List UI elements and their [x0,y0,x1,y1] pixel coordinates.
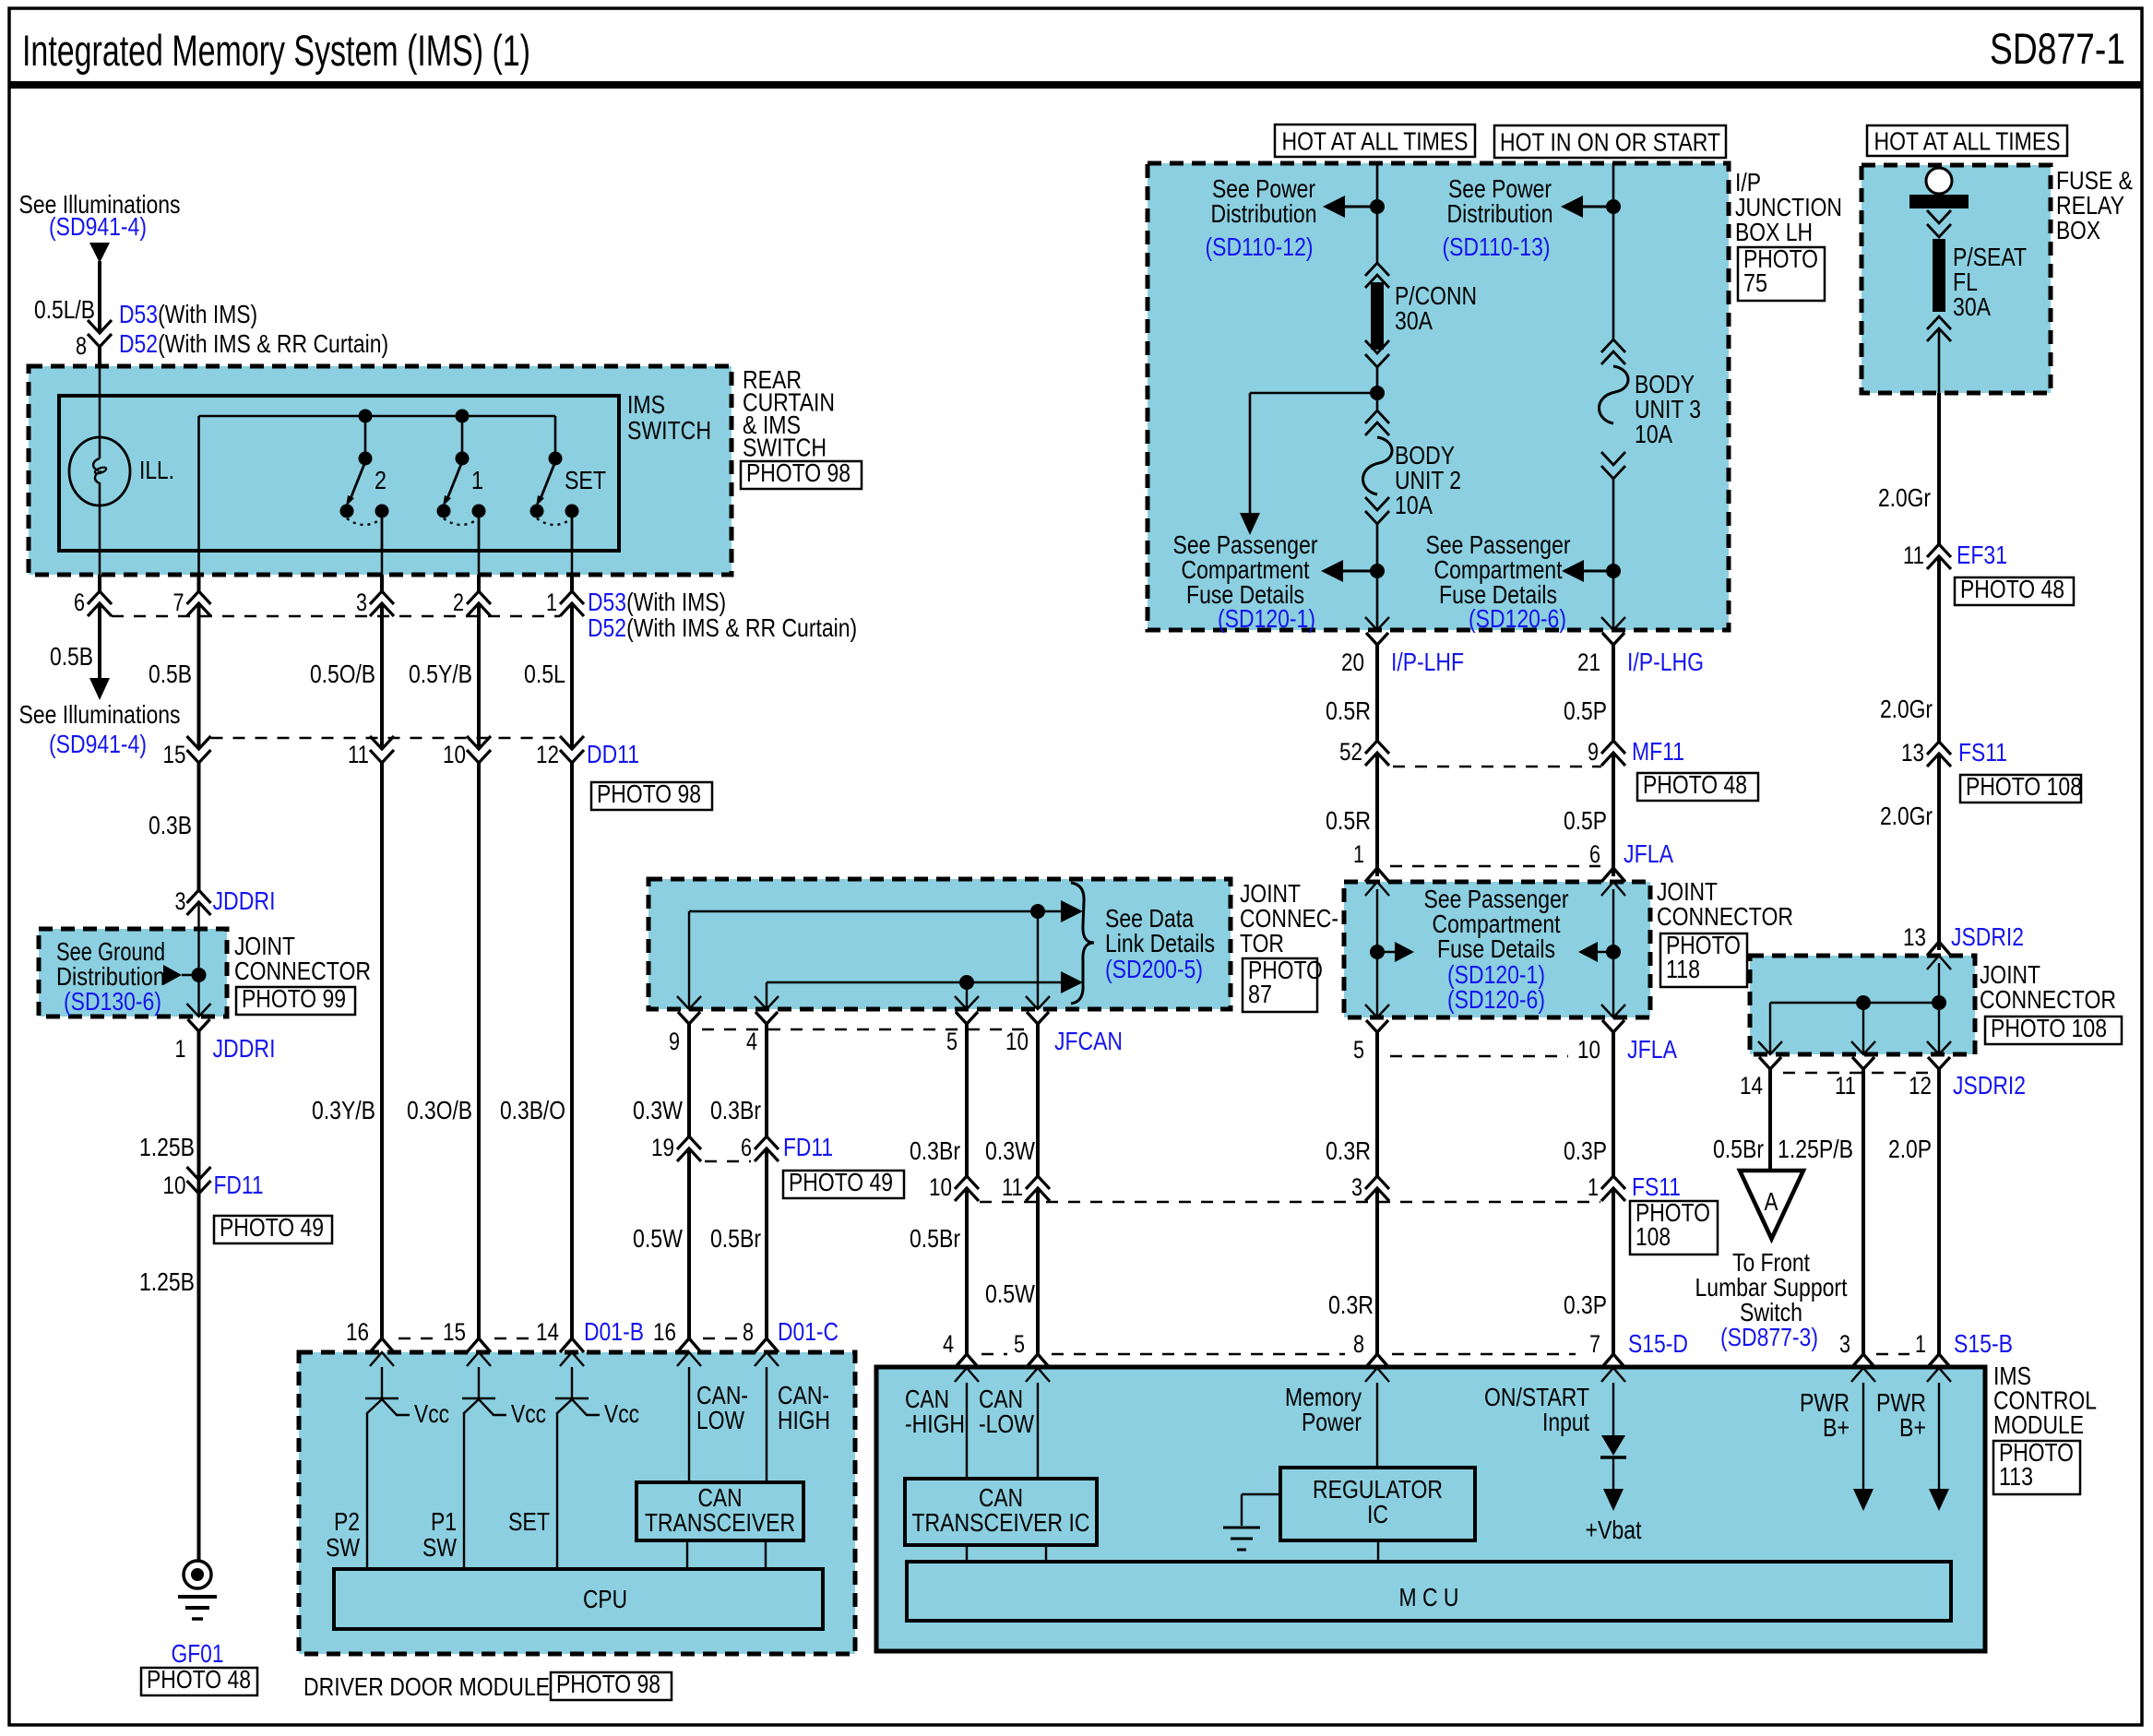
svg-text:7: 7 [1589,1330,1600,1358]
svg-text:30A: 30A [1395,306,1433,335]
svg-text:D01-C: D01-C [778,1317,839,1346]
svg-text:M C U: M C U [1399,1583,1459,1611]
svg-text:Distribution: Distribution [1447,199,1553,228]
svg-text:5: 5 [946,1028,958,1055]
svg-text:SD877-1: SD877-1 [1990,24,2125,73]
svg-text:14: 14 [536,1318,559,1346]
svg-text:8: 8 [76,332,87,360]
svg-text:P1: P1 [431,1507,457,1536]
svg-text:TOR: TOR [1240,929,1284,957]
svg-text:87: 87 [1248,980,1272,1008]
svg-text:D52: D52 [119,329,158,358]
svg-text:(With IMS): (With IMS) [626,588,726,616]
svg-text:Vcc: Vcc [414,1399,449,1428]
svg-text:S15-D: S15-D [1628,1329,1688,1358]
svg-text:10: 10 [1005,1028,1029,1055]
svg-text:HOT AT ALL TIMES: HOT AT ALL TIMES [1874,127,2061,156]
svg-text:0.3Br: 0.3Br [710,1096,761,1124]
svg-text:7: 7 [173,589,184,616]
svg-text:IMS: IMS [627,390,665,419]
svg-text:2: 2 [453,589,464,616]
svg-text:9: 9 [669,1028,680,1055]
svg-text:0.3B: 0.3B [149,811,192,839]
svg-text:-LOW: -LOW [979,1409,1034,1438]
svg-text:JSDRI2: JSDRI2 [1953,1071,2026,1100]
svg-text:DD11: DD11 [587,740,639,768]
svg-text:2.0Gr: 2.0Gr [1880,695,1933,723]
svg-text:0.5R: 0.5R [1326,696,1371,725]
svg-text:PHOTO 48: PHOTO 48 [1960,575,2064,603]
svg-text:0.3R: 0.3R [1328,1290,1374,1319]
svg-text:(With IMS & RR Curtain): (With IMS & RR Curtain) [626,613,857,642]
svg-text:I/P-LHG: I/P-LHG [1627,648,1704,676]
svg-text:15: 15 [163,741,186,768]
svg-text:1.25B: 1.25B [139,1267,195,1296]
svg-text:9: 9 [1588,738,1599,766]
svg-text:0.5B: 0.5B [149,660,192,688]
svg-text:118: 118 [1666,955,1700,983]
svg-text:5: 5 [1353,1036,1364,1064]
svg-text:DRIVER DOOR MODULE: DRIVER DOOR MODULE [303,1672,550,1701]
svg-text:JDDRI: JDDRI [213,1034,276,1063]
svg-text:0.3W: 0.3W [985,1136,1035,1165]
svg-text:PHOTO 108: PHOTO 108 [1966,772,2082,801]
svg-text:SWITCH: SWITCH [743,434,827,462]
svg-text:1: 1 [1353,840,1364,868]
svg-text:(SD110-13): (SD110-13) [1443,232,1551,261]
svg-text:S15-B: S15-B [1954,1329,2013,1358]
svg-text:Input: Input [1542,1408,1589,1436]
svg-text:PHOTO 48: PHOTO 48 [147,1665,251,1694]
svg-text:12: 12 [1909,1072,1932,1100]
svg-text:0.3P: 0.3P [1564,1136,1607,1165]
svg-text:4: 4 [746,1028,757,1055]
svg-text:JFLA: JFLA [1627,1035,1677,1064]
svg-text:2.0Gr: 2.0Gr [1878,483,1931,512]
svg-text:6: 6 [1589,840,1600,868]
svg-text:FD11: FD11 [783,1133,833,1161]
svg-text:0.5O/B: 0.5O/B [310,660,375,688]
svg-text:16: 16 [346,1318,369,1346]
svg-text:SW: SW [326,1533,360,1562]
svg-text:FD11: FD11 [214,1171,264,1199]
svg-text:HIGH: HIGH [778,1406,830,1434]
svg-text:See Illuminations: See Illuminations [19,700,181,729]
svg-text:1: 1 [546,589,557,616]
svg-text:D52: D52 [588,613,626,642]
svg-text:(SD877-3): (SD877-3) [1720,1323,1818,1351]
svg-text:3: 3 [175,887,186,915]
svg-text:2.0P: 2.0P [1888,1135,1932,1163]
svg-text:1: 1 [471,466,483,494]
svg-text:Power: Power [1302,1408,1362,1436]
svg-text:2: 2 [375,466,387,494]
svg-text:CONNECTOR: CONNECTOR [1980,985,2116,1014]
svg-text:Distribution: Distribution [1211,199,1317,228]
svg-text:ILL.: ILL. [139,456,174,484]
svg-text:PHOTO 108: PHOTO 108 [1991,1014,2107,1042]
svg-text:PHOTO 98: PHOTO 98 [597,779,701,808]
svg-text:A: A [1765,1187,1778,1216]
svg-text:4: 4 [943,1330,954,1358]
svg-text:30A: 30A [1953,292,1991,321]
svg-text:108: 108 [1636,1222,1671,1251]
svg-text:(SD941-4): (SD941-4) [49,730,147,758]
svg-text:JFCAN: JFCAN [1054,1027,1123,1055]
svg-text:8: 8 [743,1318,754,1346]
svg-text:Link Details: Link Details [1105,929,1215,957]
svg-text:11: 11 [348,741,369,768]
svg-text:Vcc: Vcc [604,1399,639,1428]
svg-text:10: 10 [443,741,466,768]
svg-text:I/P-LHF: I/P-LHF [1391,648,1464,676]
svg-text:SWITCH: SWITCH [627,416,711,445]
svg-text:13: 13 [1901,739,1924,767]
svg-text:11: 11 [1835,1072,1856,1100]
svg-text:CPU: CPU [583,1585,627,1613]
svg-text:PHOTO 49: PHOTO 49 [789,1168,893,1196]
svg-text:0.3B/O: 0.3B/O [500,1096,565,1124]
svg-text:LOW: LOW [696,1406,744,1434]
svg-text:0.5B: 0.5B [50,642,93,671]
svg-text:GF01: GF01 [172,1639,224,1668]
svg-text:113: 113 [1999,1462,2033,1491]
svg-text:1: 1 [175,1035,186,1063]
svg-text:BOX LH: BOX LH [1735,218,1813,246]
svg-text:0.5L: 0.5L [524,660,565,688]
svg-text:FS11: FS11 [1958,738,2007,767]
svg-text:6: 6 [741,1134,752,1161]
svg-text:Vcc: Vcc [511,1399,546,1428]
svg-text:PHOTO 98: PHOTO 98 [556,1670,660,1698]
svg-text:2.0Gr: 2.0Gr [1880,802,1933,830]
svg-text:IC: IC [1367,1500,1388,1528]
svg-text:52: 52 [1339,738,1362,766]
svg-text:10: 10 [163,1171,186,1199]
svg-text:FS11: FS11 [1632,1172,1681,1201]
svg-text:JFLA: JFLA [1624,839,1673,868]
svg-text:14: 14 [1740,1072,1763,1100]
svg-text:SW: SW [422,1533,457,1562]
svg-text:0.3R: 0.3R [1326,1136,1371,1165]
svg-text:6: 6 [74,589,85,616]
svg-text:0.5P: 0.5P [1564,696,1607,725]
svg-text:Integrated Memory System (IMS): Integrated Memory System (IMS) (1) [22,26,530,75]
svg-text:75: 75 [1743,268,1767,297]
svg-text:JDDRI: JDDRI [213,886,276,915]
svg-text:5: 5 [1014,1330,1025,1358]
svg-text:MF11: MF11 [1632,737,1684,766]
svg-text:(With IMS): (With IMS) [158,300,257,328]
svg-text:10: 10 [1577,1036,1600,1064]
svg-text:EF31: EF31 [1957,541,2007,569]
svg-text:0.5P: 0.5P [1564,806,1607,835]
svg-text:(SD120-6): (SD120-6) [1447,985,1545,1014]
svg-text:0.5Br: 0.5Br [1713,1135,1764,1163]
svg-text:0.3Br: 0.3Br [910,1136,960,1165]
svg-text:Fuse Details: Fuse Details [1437,934,1555,963]
svg-text:11: 11 [1002,1173,1023,1201]
svg-text:BOX: BOX [2056,216,2100,244]
svg-text:0.5Br: 0.5Br [910,1224,960,1253]
svg-text:B+: B+ [1899,1413,1926,1442]
svg-text:CONNECTOR: CONNECTOR [234,957,371,985]
svg-text:PHOTO 48: PHOTO 48 [1643,770,1747,799]
svg-text:0.5Br: 0.5Br [710,1224,761,1253]
svg-text:D01-B: D01-B [584,1317,644,1346]
svg-text:SET: SET [565,466,606,494]
svg-text:3: 3 [1839,1330,1850,1358]
svg-text:P2: P2 [334,1507,360,1536]
svg-text:PHOTO 98: PHOTO 98 [746,458,850,487]
svg-text:0.5R: 0.5R [1326,806,1371,835]
svg-text:1.25P/B: 1.25P/B [1778,1135,1853,1163]
svg-text:0.3Y/B: 0.3Y/B [312,1096,375,1124]
svg-text:B+: B+ [1823,1413,1850,1442]
svg-text:0.3O/B: 0.3O/B [407,1096,472,1124]
svg-text:0.5W: 0.5W [633,1224,683,1253]
svg-text:(SD110-12): (SD110-12) [1206,232,1314,261]
svg-text:CONNECTOR: CONNECTOR [1657,902,1793,931]
svg-text:0.5Y/B: 0.5Y/B [409,660,472,688]
svg-text:1.25B: 1.25B [139,1133,195,1161]
svg-text:20: 20 [1341,648,1364,676]
svg-text:(SD120-1): (SD120-1) [1218,604,1315,633]
svg-text:3: 3 [1351,1173,1362,1201]
svg-text:(SD120-6): (SD120-6) [1469,604,1566,633]
svg-text:16: 16 [653,1318,676,1346]
svg-text:+Vbat: +Vbat [1586,1516,1642,1544]
svg-text:11: 11 [1903,541,1924,569]
svg-text:D53: D53 [119,300,158,328]
svg-text:JSDRI2: JSDRI2 [1951,922,2024,951]
svg-text:10A: 10A [1635,420,1672,448]
svg-text:1: 1 [1915,1330,1926,1358]
svg-text:1: 1 [1588,1173,1599,1201]
svg-text:15: 15 [443,1318,466,1346]
svg-text:HOT AT ALL TIMES: HOT AT ALL TIMES [1282,127,1469,156]
svg-text:PHOTO 99: PHOTO 99 [242,984,346,1013]
svg-text:0.5W: 0.5W [985,1279,1035,1308]
svg-text:SET: SET [508,1507,550,1536]
svg-text:10A: 10A [1395,491,1433,519]
svg-text:12: 12 [536,741,559,768]
svg-text:HOT IN ON OR START: HOT IN ON OR START [1500,128,1720,157]
svg-text:MODULE: MODULE [1993,1410,2084,1439]
svg-text:21: 21 [1577,648,1600,676]
svg-text:D53: D53 [588,588,626,616]
svg-text:(SD200-5): (SD200-5) [1105,955,1203,983]
svg-text:13: 13 [1903,923,1926,951]
svg-text:PHOTO 49: PHOTO 49 [220,1213,324,1242]
svg-text:0.3W: 0.3W [633,1096,683,1124]
svg-text:(With IMS & RR Curtain): (With IMS & RR Curtain) [158,329,388,358]
svg-text:0.3P: 0.3P [1564,1290,1607,1319]
svg-text:(SD941-4): (SD941-4) [49,212,147,241]
svg-text:8: 8 [1353,1330,1364,1358]
svg-text:0.5L/B: 0.5L/B [34,295,95,324]
svg-text:19: 19 [651,1134,674,1161]
svg-text:-HIGH: -HIGH [905,1409,965,1438]
svg-text:(SD130-6): (SD130-6) [64,987,161,1016]
svg-text:TRANSCEIVER IC: TRANSCEIVER IC [912,1508,1090,1537]
svg-text:10: 10 [929,1173,952,1201]
svg-text:TRANSCEIVER: TRANSCEIVER [645,1508,795,1537]
svg-text:3: 3 [356,589,367,616]
